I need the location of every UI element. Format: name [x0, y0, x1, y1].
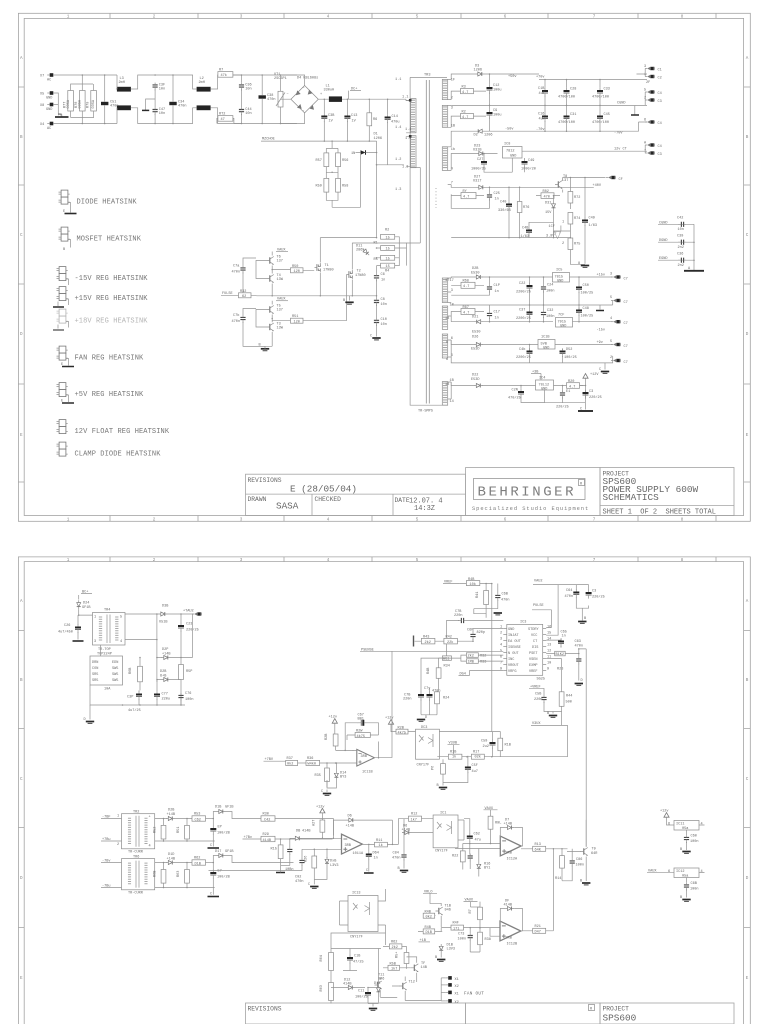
- svg-text:R22: R22: [452, 855, 458, 859]
- cap C5B 220n: [541, 695, 546, 703]
- svg-text:4u7/25: 4u7/25: [128, 708, 141, 713]
- cap C22 2200/25: [527, 283, 533, 292]
- svg-text:6: 6: [500, 656, 502, 660]
- svg-text:9: 9: [547, 668, 549, 672]
- svg-text:15: 15: [386, 248, 390, 252]
- svg-text:1: 1: [67, 15, 70, 20]
- svg-text:C14: C14: [392, 115, 398, 119]
- svg-text:R56: R56: [342, 159, 348, 163]
- svg-text:B: B: [746, 135, 749, 140]
- svg-text:1/63: 1/63: [589, 223, 598, 228]
- connector X7: [47, 73, 53, 77]
- svg-text:10n: 10n: [245, 87, 251, 91]
- svg-text:2mH: 2mH: [119, 81, 125, 85]
- svg-text:E530: E530: [472, 331, 481, 335]
- cap C7b 470n: [240, 315, 245, 323]
- svg-text:C2: C2: [658, 77, 662, 81]
- svg-text:B: B: [584, 617, 586, 621]
- svg-text:10n: 10n: [381, 303, 387, 307]
- svg-text:IC12: IC12: [676, 870, 685, 874]
- IC12 supervisor: [674, 868, 699, 878]
- svg-text:4: 4: [500, 644, 502, 648]
- svg-text:R42: R42: [446, 636, 452, 640]
- TR3 secondary winding S6: [443, 335, 447, 357]
- cap C6P 820p: [470, 632, 475, 640]
- svg-text:C7: C7: [624, 345, 628, 349]
- heatsink -15V REG: [57, 267, 68, 281]
- TR3 secondary winding S4: [443, 279, 447, 302]
- resistor R4B 0k2: [423, 913, 435, 918]
- svg-text:C22: C22: [519, 282, 525, 286]
- +12v triangle opto: [388, 720, 393, 725]
- wire VAU2 rail: [576, 585, 588, 591]
- cap C7x 470n: [427, 692, 433, 701]
- svg-text:C6: C6: [381, 273, 385, 277]
- wire bottom AC rail: [53, 123, 117, 125]
- cap C39 2n2: [678, 240, 686, 245]
- svg-text:R20: R20: [568, 380, 574, 384]
- choke L2 top winding: [197, 87, 211, 92]
- cap C60 100n: [684, 835, 689, 843]
- svg-text:IC12A: IC12A: [507, 858, 519, 862]
- svg-text:C7: C7: [624, 361, 628, 365]
- svg-text:D24: D24: [83, 602, 89, 606]
- connector +9v: [611, 343, 621, 346]
- svg-text:R51: R51: [177, 827, 181, 833]
- svg-text:C5B: C5B: [535, 693, 541, 697]
- svg-text:1n: 1n: [495, 198, 499, 202]
- resistor R50 120: [291, 268, 304, 273]
- svg-text:C73: C73: [458, 933, 464, 937]
- TR3 outline wires: [410, 77, 447, 405]
- svg-text:470: 470: [544, 196, 550, 200]
- svg-text:R68: R68: [463, 280, 469, 284]
- svg-text:C16: C16: [538, 113, 544, 117]
- svg-text:1000/20: 1000/20: [521, 167, 536, 172]
- svg-text:VAUX: VAUX: [277, 249, 286, 253]
- svg-text:E7: E7: [218, 870, 222, 874]
- svg-text:R2B: R2B: [398, 726, 404, 730]
- zener D31 15V: [552, 202, 556, 211]
- mosfet T2 17N80: [347, 270, 353, 279]
- svg-text:5: 5: [610, 296, 612, 300]
- resistor R2B 4k75: [396, 729, 408, 734]
- svg-text:R1b: R1b: [271, 847, 277, 852]
- TR3 secondary winding S7: [443, 383, 447, 405]
- svg-text:B: B: [259, 344, 261, 348]
- cap C36 10n: [239, 83, 244, 91]
- svg-text:15: 15: [547, 632, 551, 636]
- svg-text:+14B: +14B: [167, 813, 176, 817]
- svg-text:REVISIONS: REVISIONS: [248, 1006, 282, 1013]
- svg-text:1n: 1n: [562, 635, 566, 639]
- svg-text:SW5: SW5: [112, 679, 118, 683]
- svg-text:03SA: 03SA: [92, 99, 96, 108]
- source rail: [257, 295, 377, 297]
- svg-text:1206: 1206: [374, 137, 383, 141]
- IC11 supervisor: [674, 821, 699, 831]
- TR3 pins right: [448, 79, 452, 399]
- svg-text:B: B: [63, 248, 65, 252]
- svg-text:C: C: [580, 408, 582, 412]
- svg-text:+7Bv: +7Bv: [244, 836, 253, 840]
- svg-text:D1: D1: [374, 133, 378, 137]
- svg-text:DIS: DIS: [532, 646, 538, 650]
- svg-text:D64: D64: [373, 852, 379, 856]
- svg-text:330uH: 330uH: [324, 89, 335, 93]
- svg-text:820p: 820p: [477, 631, 486, 635]
- svg-text:1V: 1V: [352, 120, 357, 124]
- wires to opamp: [455, 844, 500, 852]
- svg-text:C12: C12: [493, 84, 499, 88]
- cap C5F 4u7: [465, 764, 471, 773]
- cap C24 100n: [541, 285, 546, 293]
- svg-text:10n: 10n: [245, 112, 251, 116]
- svg-text:C: C: [599, 368, 601, 372]
- feedback vertical: [491, 584, 493, 732]
- svg-text:A: A: [20, 56, 23, 61]
- svg-text:R43: R43: [423, 636, 429, 640]
- svg-text:VRLO: VRLO: [424, 890, 433, 894]
- svg-text:+12v: +12v: [316, 806, 325, 810]
- svg-text:VREF: VREF: [529, 670, 538, 674]
- transistor T9 64R: [581, 848, 588, 856]
- svg-text:R7: R7: [469, 909, 473, 913]
- svg-text:1: 1: [67, 558, 70, 563]
- cap C45 4700/100: [597, 113, 603, 122]
- behringer logo: [474, 479, 586, 500]
- svg-text:+40V: +40V: [593, 184, 602, 188]
- opamp IC12B: [500, 921, 521, 941]
- bottom join: [545, 390, 586, 403]
- svg-text:C36: C36: [677, 253, 683, 257]
- svg-text:7: 7: [593, 558, 596, 563]
- svg-text:C59: C59: [481, 740, 487, 744]
- svg-text:470n: 470n: [267, 98, 276, 102]
- bottom rail row3: [451, 356, 613, 363]
- svg-text:5: 5: [416, 15, 419, 20]
- cap E7 100/2B: [210, 870, 216, 879]
- svg-text:C37: C37: [519, 309, 525, 313]
- svg-text:15V: 15V: [545, 211, 552, 215]
- svg-text:4.7: 4.7: [463, 311, 469, 315]
- svg-text:C1B: C1B: [538, 87, 544, 91]
- resistor R51b: [185, 825, 190, 839]
- cap C62 47u: [467, 833, 473, 842]
- svg-text:EDN: EDN: [112, 661, 118, 665]
- svg-text:470n: 470n: [232, 320, 241, 324]
- resistor R1B 1k: [448, 754, 462, 759]
- svg-text:100/25: 100/25: [564, 355, 577, 360]
- svg-text:A: A: [746, 56, 749, 61]
- svg-text:3RB: 3RB: [361, 755, 367, 759]
- svg-text:R1B: R1B: [505, 744, 511, 748]
- svg-text:2n2: 2n2: [678, 246, 684, 250]
- connector GND15: [611, 299, 621, 302]
- svg-text:TR-CURR: TR-CURR: [128, 892, 144, 896]
- svg-text:DGND: DGND: [659, 239, 668, 243]
- svg-text:AC: AC: [47, 127, 51, 131]
- resistor R56: [336, 153, 341, 167]
- svg-text:6: 6: [668, 823, 670, 827]
- svg-text:B: B: [680, 896, 682, 900]
- svg-text:100n: 100n: [690, 888, 699, 892]
- cap C40 330/63: [506, 201, 512, 210]
- svg-text:E: E: [746, 433, 749, 438]
- cap C02 470n: [299, 858, 304, 866]
- choke L2 bottom winding: [197, 105, 211, 110]
- svg-text:-: -: [303, 109, 305, 113]
- svg-text:15: 15: [386, 236, 390, 240]
- svg-text:4u7: 4u7: [539, 118, 545, 122]
- svg-text:+14B: +14B: [162, 653, 171, 657]
- transistor T8 137: [555, 181, 562, 189]
- svg-text:1n: 1n: [374, 857, 378, 861]
- svg-text:R4B: R4B: [425, 910, 431, 914]
- svg-text:B: B: [746, 678, 749, 683]
- svg-text:E: E: [61, 363, 63, 367]
- svg-text:PSENSE: PSENSE: [361, 648, 374, 652]
- svg-text:D: D: [581, 679, 583, 683]
- ground fan: [368, 1004, 379, 1007]
- svg-text:D: D: [746, 332, 749, 337]
- svg-text:R4B: R4B: [425, 926, 431, 930]
- cap C3 220/25: [586, 590, 592, 599]
- svg-text:R38: R38: [485, 938, 491, 942]
- cap C31 4700/100: [564, 113, 570, 122]
- svg-text:3: 3: [240, 15, 243, 20]
- svg-text:1: 1: [117, 815, 119, 819]
- svg-text:470n: 470n: [565, 595, 574, 599]
- svg-text:10n: 10n: [159, 87, 165, 91]
- svg-text:R52: R52: [154, 827, 158, 833]
- svg-text:A: A: [746, 599, 749, 604]
- svg-text:C: C: [370, 335, 372, 339]
- cap C36b 2n2: [678, 258, 686, 263]
- svg-text:137: 137: [277, 309, 283, 313]
- cap C28 4700/100: [564, 88, 570, 97]
- svg-text:D: D: [746, 876, 749, 881]
- svg-text:-15v: -15v: [597, 329, 606, 333]
- svg-text:C3: C3: [589, 390, 593, 394]
- svg-text:B: B: [680, 848, 682, 852]
- svg-text:C26: C26: [64, 624, 70, 628]
- svg-text:C24: C24: [547, 284, 553, 288]
- svg-text:X2: X2: [455, 1001, 459, 1005]
- column numbers: [20, 15, 749, 523]
- resistor R75: [568, 238, 573, 250]
- svg-text:1.3: 1.3: [395, 188, 401, 192]
- svg-text:10n: 10n: [381, 323, 387, 327]
- svg-text:C2N: C2N: [512, 389, 518, 393]
- svg-text:B: B: [343, 299, 345, 303]
- svg-text:SW5: SW5: [112, 673, 118, 677]
- svg-text:GND: GND: [560, 325, 566, 329]
- svg-text:+: +: [149, 816, 151, 820]
- svg-text:470n: 470n: [392, 857, 401, 861]
- wires through L3: [116, 75, 155, 124]
- resistor R57: [324, 153, 329, 167]
- svg-text:4: 4: [701, 823, 703, 827]
- sheet 2 outer border: [18, 557, 750, 1024]
- svg-text:4.7: 4.7: [569, 386, 575, 390]
- ground egnd: [684, 270, 704, 272]
- svg-text:VRFG: VRFG: [508, 670, 517, 674]
- resistor R32 62 PULSE: [239, 293, 252, 298]
- svg-text:DRAWN: DRAWN: [248, 496, 267, 503]
- svg-text:3: 3: [451, 289, 453, 293]
- heatsink +18V REG (faint): [57, 309, 149, 325]
- svg-text:C50: C50: [583, 284, 589, 288]
- svg-text:100/25: 100/25: [581, 291, 594, 296]
- opamp IC11A: [342, 834, 363, 854]
- svg-text:C: C: [366, 869, 368, 873]
- output rail: [362, 819, 404, 845]
- cap C32 100n: [541, 310, 546, 318]
- svg-text:R57: R57: [316, 159, 322, 163]
- connector C3b: [645, 151, 655, 154]
- resistor R24: [435, 692, 440, 704]
- svg-text:3: 3: [451, 106, 453, 110]
- output to PSENSE: [391, 651, 393, 757]
- svg-text:DRN: DRN: [92, 661, 98, 665]
- svg-text:D2P: D2P: [162, 648, 168, 652]
- svg-text:3: 3: [240, 558, 243, 563]
- svg-text:A: A: [20, 599, 23, 604]
- wire fan link: [380, 998, 441, 1001]
- +12v triangle sup: [664, 813, 669, 818]
- svg-text:+5V REG HEATSINK: +5V REG HEATSINK: [75, 391, 145, 399]
- svg-text:470n: 470n: [232, 271, 241, 275]
- svg-text:220n: 220n: [534, 698, 543, 702]
- svg-text:IC5: IC5: [556, 269, 562, 273]
- svg-text:FAN OUT: FAN OUT: [464, 992, 484, 997]
- svg-text:3RB: 3RB: [506, 852, 512, 856]
- connector X8: [47, 103, 53, 107]
- svg-text:13: 13: [547, 644, 551, 648]
- connector +15v: [611, 275, 621, 278]
- svg-text:R23: R23: [557, 668, 563, 672]
- resistor DGA vres: [498, 738, 503, 751]
- cap C26 4uF/450: [75, 624, 81, 633]
- resistor R91: [488, 816, 493, 829]
- cap C3B 1v: [321, 113, 327, 122]
- cap C4b2 2200/25: [527, 348, 533, 357]
- resistor R3B vert: [478, 932, 483, 945]
- svg-text:C7: C7: [624, 322, 628, 326]
- svg-text:R58: R58: [342, 185, 348, 189]
- svg-text:1B: 1B: [445, 383, 449, 387]
- resistor R72: [568, 192, 573, 204]
- svg-text:C3: C3: [658, 100, 662, 104]
- cap C7a 470n: [240, 266, 245, 274]
- ground mid (T2 source): [349, 296, 351, 301]
- svg-text:R4B: R4B: [468, 578, 474, 582]
- heatsink MOSFET: [59, 227, 70, 241]
- svg-text:E: E: [63, 210, 65, 214]
- svg-text:C: C: [746, 777, 749, 782]
- svg-text:5: 5: [644, 89, 646, 93]
- cap C6 1n: [374, 273, 379, 281]
- svg-text:C5F: C5F: [472, 764, 478, 768]
- svg-text:PSET: PSET: [529, 652, 538, 656]
- svg-text:C45: C45: [604, 113, 610, 117]
- cap C6B 100n: [684, 883, 689, 891]
- svg-text:3RB: 3RB: [345, 844, 351, 848]
- svg-text:-7BF: -7BF: [102, 816, 111, 820]
- cap C73 100n: [468, 933, 473, 941]
- svg-text:1C1B: 1C1B: [541, 336, 550, 340]
- cap C3b 220/25: [583, 390, 589, 399]
- svg-text:4: 4: [327, 15, 330, 20]
- svg-text:STDRY: STDRY: [528, 628, 540, 632]
- bridge rectifier D4 KBL608: [281, 75, 323, 124]
- resistor R3 4.7: [461, 89, 474, 94]
- wire fan mid: [331, 949, 381, 983]
- svg-text:R51: R51: [292, 315, 298, 319]
- resistor R58: [336, 178, 341, 192]
- svg-text:SG25: SG25: [537, 678, 546, 682]
- svg-text:D1B: D1B: [195, 862, 201, 866]
- svg-text:VSEN: VSEN: [529, 658, 538, 662]
- svg-text:D2B: D2B: [160, 670, 166, 674]
- svg-text:EP: EP: [218, 826, 222, 830]
- svg-text:414B: 414B: [302, 830, 311, 834]
- svg-text:R5: R5: [374, 258, 378, 262]
- svg-text:T9: T9: [592, 848, 596, 852]
- svg-text:R59: R59: [316, 185, 322, 189]
- transistor T4 13W: [267, 275, 274, 283]
- resistor ladder R1 15: [381, 246, 395, 251]
- connector C2: [645, 75, 655, 78]
- wires through L2: [173, 75, 242, 124]
- svg-text:22k: 22k: [447, 640, 453, 645]
- svg-text:CLAMP DIODE HEATSINK: CLAMP DIODE HEATSINK: [75, 451, 162, 459]
- cap mid 100n: [287, 847, 292, 855]
- svg-text:EGND: EGND: [659, 257, 668, 261]
- top rail to ladder: [320, 237, 376, 239]
- connector C3a: [645, 98, 655, 101]
- svg-text:6: 6: [446, 341, 448, 345]
- heatsink +5V REG: [57, 383, 68, 397]
- varistor R77: [68, 91, 74, 112]
- svg-text:R72: R72: [574, 196, 580, 200]
- svg-text:C4: C4: [658, 145, 662, 149]
- svg-text:1011A: 1011A: [353, 852, 365, 856]
- svg-text:E: E: [20, 976, 23, 981]
- svg-text:+12v: +12v: [329, 716, 338, 720]
- svg-text:C39: C39: [677, 235, 683, 239]
- resistor R7: [478, 907, 483, 920]
- svg-text:C60: C60: [691, 835, 697, 839]
- svg-text:C64: C64: [566, 589, 572, 593]
- svg-text:470/25: 470/25: [508, 396, 521, 401]
- svg-text:C7y: C7y: [424, 687, 431, 691]
- wire mid rails: [155, 75, 173, 124]
- opamp IC12A: [500, 836, 521, 856]
- svg-text:R9L: R9L: [495, 822, 501, 826]
- svg-text:946: 946: [378, 978, 384, 982]
- svg-text:R34: R34: [444, 665, 450, 669]
- regulator IC1B: [538, 340, 555, 350]
- svg-text:R64: R64: [320, 955, 324, 961]
- svg-text:D6: D6: [348, 815, 352, 819]
- svg-text:Specialized Studio Equipment: Specialized Studio Equipment: [472, 506, 589, 512]
- svg-text:3: 3: [644, 65, 646, 69]
- wire X5/X8 to ground: [53, 93, 62, 117]
- svg-text:C7: C7: [624, 278, 628, 282]
- svg-text:C13: C13: [351, 114, 357, 118]
